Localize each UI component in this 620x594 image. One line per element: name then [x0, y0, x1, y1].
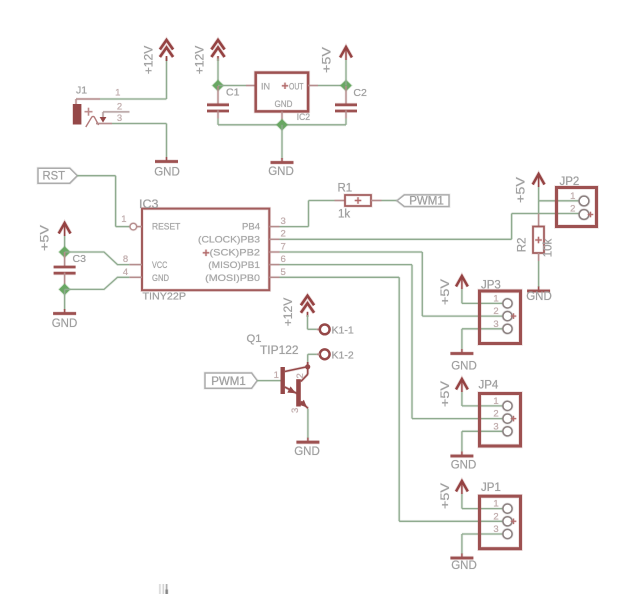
svg-text:OUT: OUT [289, 81, 304, 92]
IC3 pin 6 PB1 [269, 263, 279, 266]
svg-text:C2: C2 [353, 87, 367, 99]
svg-text:K1-2: K1-2 [332, 350, 354, 362]
svg-text:GND: GND [152, 273, 169, 284]
svg-text:J1: J1 [76, 84, 87, 96]
junction node +12V rail [211, 79, 225, 93]
wire PWM1 to Q1 base [257, 379, 280, 382]
junction node +5V rail [339, 79, 353, 93]
svg-text:RST: RST [43, 171, 66, 183]
wire IC3 PB3 to JP2 pin 2 [280, 238, 512, 241]
svg-text:(MISO)PB1: (MISO)PB1 [208, 260, 260, 271]
connector J1 power jack [73, 84, 130, 127]
IC3 pin 8 VCC [129, 263, 142, 266]
svg-text:3: 3 [290, 408, 301, 413]
capacitor C2 [335, 87, 367, 111]
svg-text:PWM1: PWM1 [211, 376, 246, 388]
svg-text:+5V: +5V [440, 381, 452, 407]
wire RST to IC3 RESET [77, 174, 115, 177]
wire +5V to JP4 pin 1 [460, 392, 463, 406]
resistor R2 10k [517, 214, 555, 262]
wire IC3 PB1 to JP4 pin 2 [280, 263, 413, 266]
net label flag PWM1 at R1 [397, 195, 449, 208]
net label flag RST [38, 168, 77, 183]
svg-text:JP4: JP4 [479, 379, 499, 391]
wire net +12V to J1 pin 1 [100, 98, 167, 101]
wire +5V to JP1 pin 1 [460, 494, 463, 509]
svg-text:TINY22P: TINY22P [143, 291, 187, 303]
wire ground rail C1-IC2-C2 [218, 123, 346, 126]
voltage regulator IC2 [256, 73, 310, 123]
svg-text:K1-1: K1-1 [332, 325, 354, 337]
wire +5V to JP2 pin 1 [537, 187, 540, 201]
junction node ground rail [275, 118, 289, 132]
svg-text:2: 2 [295, 373, 306, 378]
junction node C3 bottom [58, 283, 72, 297]
capacitor C3 leads [63, 252, 66, 267]
wire JP4 pin1 lead [462, 404, 503, 407]
svg-text:2: 2 [493, 511, 498, 522]
svg-text:1: 1 [121, 214, 126, 225]
wire JP1 pin3 to ground [462, 533, 503, 536]
svg-text:GND: GND [526, 291, 552, 303]
IC3 pin 4 GND [129, 276, 142, 279]
svg-text:TIP122: TIP122 [260, 345, 299, 357]
svg-text:3: 3 [493, 421, 498, 432]
svg-text:2: 2 [493, 409, 498, 420]
svg-text:PWM1: PWM1 [409, 196, 444, 208]
svg-text:VCC: VCC [152, 260, 167, 271]
svg-text:JP1: JP1 [481, 482, 501, 494]
wire pad K1-2 [317, 349, 354, 361]
wire +12V to C1 / IC2 IN [217, 59, 220, 86]
ground symbol GND7 [450, 452, 476, 472]
svg-text:+12V: +12V [283, 297, 295, 326]
svg-text:1: 1 [493, 293, 498, 304]
microcontroller IC3 TINY22P [139, 199, 269, 303]
svg-text:1: 1 [493, 396, 498, 407]
wire JP1 pin1 lead [462, 507, 503, 510]
wire J1 pin 3 to ground [112, 122, 167, 125]
svg-text:2: 2 [570, 203, 575, 214]
ground symbol GND2 [268, 158, 294, 178]
transistor Q1 TIP122 [247, 333, 311, 413]
wire C3 bottom to ground [63, 289, 66, 309]
wire JP4 pin3 to ground [462, 430, 503, 433]
svg-text:GND: GND [294, 446, 320, 458]
svg-text:1: 1 [493, 499, 498, 510]
svg-text:2: 2 [493, 306, 498, 317]
wire IC2 OUT to +5V / C2 [308, 84, 318, 87]
IC2 GND pin [281, 111, 284, 124]
svg-text:R2: R2 [517, 238, 529, 253]
wire junction JP2 pin1-pin2 vertical [537, 201, 540, 214]
net label flag PWM1 at Q1 [205, 373, 257, 388]
svg-text:+5V: +5V [322, 47, 334, 73]
wire C3 top to IC3 VCC [65, 252, 130, 265]
wire +5V to JP3 pin 1 [460, 289, 463, 303]
IC3 pin 7 PB2 [269, 251, 279, 254]
svg-text:(CLOCK)PB3: (CLOCK)PB3 [198, 235, 260, 246]
wire ground rail to GND2 [281, 125, 284, 159]
svg-text:1: 1 [274, 370, 279, 381]
wire +12V to K1-1 [306, 315, 309, 329]
svg-text:+5V: +5V [40, 225, 52, 251]
svg-text:IC3: IC3 [139, 199, 159, 211]
ground symbol GND1 [154, 157, 180, 178]
svg-text:+12V: +12V [144, 45, 156, 74]
svg-text:3: 3 [493, 319, 498, 330]
svg-text:C1: C1 [226, 87, 240, 99]
wire IC3 PB2 to JP3 pin 2 [280, 251, 423, 254]
partial cropped text bottom edge [160, 584, 167, 594]
svg-text:(SCK)PB2: (SCK)PB2 [210, 247, 261, 258]
ground symbol GND6 [450, 349, 476, 373]
wire R1 to PWM1 flag [382, 199, 398, 202]
svg-text:+5V: +5V [440, 483, 452, 509]
svg-text:IC2: IC2 [297, 112, 311, 123]
ground symbol GND5 [526, 287, 552, 303]
supply +5V symbol P5B [40, 223, 71, 251]
IC3 pin 2 PB3 [269, 238, 279, 241]
capacitor C3 [54, 253, 86, 273]
svg-text:JP2: JP2 [560, 176, 580, 188]
wire C3 bottom to IC3 GND [65, 277, 130, 289]
svg-text:GND: GND [451, 361, 477, 373]
supply +5V symbol P5C [516, 174, 545, 203]
svg-text:GND: GND [52, 318, 78, 330]
wire IC3 PB0 to JP1 pin 2 [280, 276, 400, 279]
ground symbol GND4 [294, 438, 320, 458]
wire IC3 PB4 to R1 [280, 225, 309, 228]
svg-text:+12V: +12V [195, 45, 207, 74]
svg-text:GND: GND [154, 166, 180, 178]
svg-text:JP3: JP3 [481, 279, 501, 291]
supply +5V symbol P5D [440, 276, 468, 305]
ground symbol GND8 [450, 554, 476, 573]
capacitor C2 leads [345, 86, 348, 105]
connector JP3 [480, 279, 521, 343]
svg-text:PB4: PB4 [242, 222, 260, 233]
svg-text:3: 3 [493, 524, 498, 535]
junction node C3 top [58, 245, 72, 259]
wire JP3 pin3 to ground [462, 327, 503, 330]
svg-text:GND: GND [268, 166, 294, 178]
svg-text:1: 1 [570, 191, 575, 202]
supply +12V symbol P+2 [195, 40, 225, 74]
svg-text:C3: C3 [73, 253, 87, 265]
svg-text:IN: IN [261, 81, 270, 92]
svg-text:GND: GND [275, 99, 293, 110]
IC3 pin 3 PB4 [269, 225, 279, 228]
svg-text:Q1: Q1 [247, 333, 262, 345]
svg-text:(MOSI)PB0: (MOSI)PB0 [205, 273, 260, 284]
svg-text:10k: 10k [543, 238, 555, 257]
wire pad K1-1 [317, 325, 354, 337]
wire +5V to C3 [63, 236, 66, 252]
wire junction to IC2 IN pin [218, 84, 246, 87]
capacitor C1 leads [217, 86, 220, 105]
supply +5V symbol P5A [322, 47, 352, 73]
wire K1-2 to Q1 collector [308, 353, 317, 356]
supply +5V symbol P5E [440, 379, 468, 407]
svg-text:+5V: +5V [516, 177, 528, 203]
ground symbol GND3 [52, 309, 78, 330]
resistor R1 1k [335, 182, 382, 220]
supply +5V symbol P5F [440, 481, 468, 509]
capacitor C1 [207, 87, 240, 112]
supply +12V symbol P+3 [283, 296, 314, 326]
supply +12V symbol P+1 [144, 40, 174, 74]
connector JP1 [480, 482, 521, 549]
svg-text:+5V: +5V [440, 279, 452, 305]
svg-text:RESET: RESET [152, 222, 180, 233]
svg-text:GND: GND [451, 460, 477, 472]
connector JP4 [479, 379, 521, 446]
IC3 pin 1 RESET inversion circle [130, 223, 137, 230]
wire R2 to ground [537, 261, 540, 287]
svg-text:1: 1 [115, 88, 120, 99]
IC3 pin 5 PB0 [269, 276, 279, 279]
wire Q1 emitter to ground [306, 409, 309, 439]
svg-text:R1: R1 [338, 182, 353, 194]
svg-text:1k: 1k [338, 209, 350, 221]
svg-text:GND: GND [451, 560, 477, 572]
svg-text:2: 2 [117, 101, 122, 112]
connector JP2 [557, 176, 597, 227]
wire JP3 pin1 lead [462, 302, 503, 305]
